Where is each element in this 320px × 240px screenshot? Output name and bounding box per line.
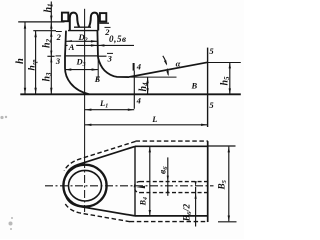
svg-text:h4: h4 [138,82,150,92]
base line y94.3 [20,93,241,95]
surface mark 2 (right) [104,27,110,37]
horizontal center line [45,185,214,187]
svg-text:В4: В4 [138,197,148,206]
svg-text:2: 2 [56,32,62,42]
junction line x135 [134,146,136,216]
bottom tangent dashed [64,202,130,221]
svg-text:5: 5 [209,100,214,110]
h1 label [43,3,55,12]
surface mark 2 (left) [56,31,62,42]
svg-text:А: А [68,42,75,52]
angle alpha arc arrow [163,56,167,65]
svg-text:L: L [151,114,157,124]
svg-text:h5: h5 [219,76,231,86]
svg-text:h: h [15,58,26,64]
left outline big curve to base [65,56,89,94]
bottom tangent solid [65,194,135,216]
bottom edge solid y215.9 [135,215,208,217]
svg-text:α: α [176,58,181,68]
outer circle of boss [63,165,106,207]
arrow on center line at slot cap [136,186,145,189]
surface mark 5 (top) [209,46,214,56]
dimension h1 line above top [50,2,52,22]
h2 label [42,38,54,48]
svg-text:В6/2: В6/2 [182,203,194,222]
web top slope line [129,62,208,77]
surface mark 3 (right) [107,53,113,63]
gutter bridge line y27.2 [74,26,91,28]
hidden slot left cap dashed [134,182,140,193]
D3 dimension [65,69,98,71]
right flash-gutter square [100,13,106,21]
svg-text:4: 4 [136,96,141,106]
D2 dimension [66,40,98,42]
surface mark 4 (lower) [136,96,141,106]
V5 extension bottom y221.8 [218,221,237,223]
left flash-gutter square [62,13,68,22]
top plane line (surface 1) y21.9 [18,21,64,23]
ledge line under right square y23.2 [99,22,109,24]
surface 3 cross at y56.3 [47,55,54,57]
hidden slot bottom dashed [140,192,208,194]
h5 dimension [229,63,231,95]
svg-text:5: 5 [209,46,214,56]
svg-text:В: В [191,81,198,91]
top tangent solid [65,146,135,177]
h_gr label [28,59,39,71]
cavity left wall [65,31,66,56]
surface mark 4 tick and label [133,63,135,71]
extension line x134.3 down [133,71,135,109]
label 0,5v [109,34,127,44]
label B (zone under boss) [94,74,101,84]
right height extension line y62.5 [208,62,241,64]
h4 dimension [147,77,149,94]
svg-text:0,5в: 0,5в [109,34,127,44]
dimension column x51.3 (h2 / h3) [50,22,52,94]
inner circle (hole) [69,170,102,201]
cavity floor line (surface 3) y55.9 [65,55,98,57]
h1 arrow down [50,16,52,22]
svg-text:4: 4 [136,62,141,72]
label A [68,42,77,52]
dimension h column x25 [24,22,26,94]
right face solid x207.7 [207,141,209,222]
L dimension [85,124,208,126]
page specks (scan artifacts) [0,116,13,230]
V6/2 dimension [195,187,197,227]
svg-text:3: 3 [55,56,61,66]
svg-text:D2: D2 [78,32,88,44]
surface mark 3 (left) [55,55,61,65]
bottom edge dashed y221.6 [130,221,208,223]
label V (zone web) [191,81,198,91]
V4 dimension [149,147,151,216]
svg-text:Б: Б [94,74,101,84]
hidden slot top dashed [140,181,208,183]
parting plane line (surface 2) y30.7 left [33,30,56,32]
center line axis x84.6 (boss axis, both views) [84,9,86,94]
top edge solid y146.3 [135,145,208,147]
svg-text:3: 3 [107,53,113,63]
D3 extension line at right wall [97,57,99,80]
top edge dashed y141.1 [136,140,208,142]
crown base line y30.6 [68,30,98,32]
v6 small dimension [167,157,169,195]
plane A line with 0,5b offset [65,44,134,46]
svg-text:h1: h1 [43,3,55,12]
floor extension right [99,55,107,57]
svg-text:L1: L1 [99,98,108,110]
svg-text:в6: в6 [159,166,170,174]
alpha label [176,58,181,68]
cavity right wall [96,31,99,58]
surface mark 5 (bottom) [209,100,214,110]
h3 label [42,72,54,82]
svg-text:2: 2 [104,27,110,37]
thin reference line y77.1 [131,76,177,78]
svg-text:hгр: hгр [28,59,39,71]
top tangent dashed [64,141,135,170]
V5 dimension [228,147,230,222]
V5 extension top y140.3 [208,145,236,147]
svg-text:В5: В5 [217,179,229,190]
right end wall x207.6 (surface 5) [207,48,209,127]
dimension h_gr column x35.6 [35,31,37,94]
svg-text:h2: h2 [42,38,54,48]
L1 dimension [85,109,134,111]
right fillet into web [98,58,129,78]
svg-text:h3: h3 [42,72,54,82]
h label [15,58,26,64]
crown (boss top profile with horns) [70,13,79,31]
